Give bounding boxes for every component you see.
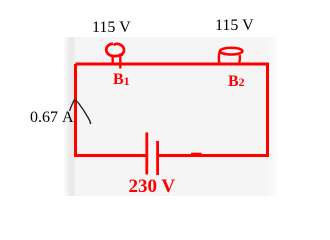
bulb B1 filament blob	[119, 52, 124, 57]
bulb B2 globe	[220, 48, 243, 55]
bulb B2 left lead	[218, 52, 221, 64]
bulb B1 globe	[106, 44, 124, 57]
label 230 V (battery)	[129, 177, 176, 196]
bulb B2 right lead	[238, 55, 241, 63]
wire dash on bottom wire	[191, 153, 202, 156]
gray panel background	[64, 37, 281, 196]
wire: circuit loop rectangle with battery gap in bottom side	[76, 64, 268, 156]
label B1	[113, 72, 130, 88]
label 115 V (left, over B1)	[92, 20, 131, 36]
battery B left plate (long)	[145, 132, 148, 174]
battery B right plate	[156, 141, 159, 175]
label B2	[228, 74, 245, 90]
bulb B1 left lead	[111, 57, 113, 65]
current arrow (black curve over left wire)	[70, 100, 91, 124]
label 115 V (right, over B2)	[215, 18, 254, 34]
bulb B1 right lead	[119, 54, 121, 69]
label 0.67 A (current)	[30, 110, 74, 126]
